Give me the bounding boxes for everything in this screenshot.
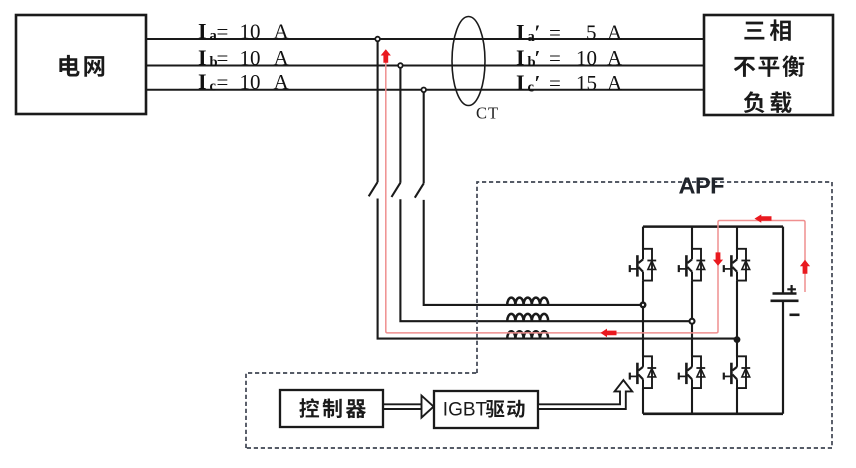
IGBT Q6 lower leg3 — [724, 356, 750, 388]
wire tap phase B + switch S2 — [392, 66, 693, 322]
wire phase B line — [146, 65, 704, 67]
node AC leg1 (phase C in) — [641, 303, 646, 308]
red arrow up (at tap A) — [381, 49, 391, 62]
svg-text:A: A — [607, 46, 623, 70]
svg-text:=: = — [549, 71, 561, 95]
node phase C tap — [421, 88, 426, 93]
wire red compensation current path — [386, 60, 805, 333]
node phase B tap — [398, 63, 403, 68]
svg-text:CT: CT — [476, 104, 499, 123]
svg-text:10: 10 — [576, 46, 597, 70]
svg-text:=: = — [217, 20, 229, 44]
svg-text:A: A — [607, 21, 623, 45]
svg-text:I: I — [198, 45, 207, 70]
red arrow down (leg3 branch) — [713, 252, 723, 265]
IGBT Q2 lower leg1 — [630, 356, 656, 388]
IGBT Q3 upper leg2 — [679, 249, 705, 281]
wire tap phase C + switch S3 — [415, 90, 643, 305]
red arrow up (at DC link) — [800, 260, 810, 274]
svg-text:I: I — [516, 45, 525, 70]
svg-text:I: I — [198, 69, 207, 94]
wire bridge leg 1 — [642, 227, 644, 250]
node AC leg2 (phase B in) — [690, 319, 695, 324]
wire tap phase A + switch S1 — [369, 39, 737, 339]
CT current transformer ellipse — [452, 17, 485, 106]
double-line arrow controller to driver — [383, 404, 422, 409]
svg-text:APF: APF — [679, 172, 725, 198]
red arrow left (top red wire) — [755, 214, 772, 222]
label - — [790, 313, 800, 316]
svg-text:=: = — [549, 46, 561, 70]
IGBT Q4 lower leg2 — [679, 356, 705, 388]
svg-text:′: ′ — [535, 21, 541, 45]
red arrow left (on inductor line) — [601, 329, 617, 338]
node AC leg3 (phase A in) — [734, 336, 741, 343]
svg-text:=: = — [217, 46, 229, 70]
wire DC link — [782, 227, 784, 414]
svg-text:c: c — [210, 79, 217, 95]
IGBT Q5 upper leg3 — [724, 249, 750, 281]
inductor Lb — [507, 314, 548, 321]
svg-text:10: 10 — [240, 70, 261, 94]
controller box 控制器 — [280, 390, 383, 427]
svg-text:′: ′ — [535, 46, 541, 70]
svg-text:A: A — [274, 20, 290, 44]
IGBT Q1 upper leg1 — [630, 249, 656, 281]
svg-text:′: ′ — [535, 71, 541, 95]
svg-text:15: 15 — [576, 71, 597, 95]
wire DC bottom bus — [643, 412, 783, 415]
load box 三相不平衡负载 — [704, 15, 833, 115]
IGBT driver box IGBT驱动 — [434, 391, 538, 428]
wire phase A line — [146, 38, 704, 40]
svg-text:I: I — [198, 19, 207, 44]
node phase A tap — [375, 37, 380, 42]
svg-text:A: A — [274, 46, 290, 70]
inductor Lc — [507, 298, 548, 305]
svg-text:I: I — [516, 70, 525, 95]
label + — [787, 285, 796, 294]
inductor La — [507, 331, 548, 338]
APF dashed box — [246, 182, 832, 448]
svg-text:10: 10 — [240, 46, 261, 70]
source box 电网 — [16, 15, 146, 114]
svg-text:IGBT: IGBT — [443, 400, 488, 421]
double-line arrow driver to IGBT gate — [538, 380, 632, 409]
svg-text:A: A — [607, 71, 623, 95]
svg-text:c: c — [528, 80, 535, 96]
svg-text:=: = — [217, 70, 229, 94]
wire bridge leg 3 — [736, 227, 738, 250]
wire DC top bus — [643, 225, 783, 228]
svg-text:I: I — [516, 20, 525, 45]
svg-text:5: 5 — [586, 21, 597, 45]
svg-text:=: = — [549, 21, 561, 45]
wire phase C line — [146, 89, 704, 91]
wire bridge leg 2 — [691, 227, 693, 250]
capacitor C (DC link) — [771, 294, 799, 301]
svg-text:A: A — [274, 70, 290, 94]
svg-text:10: 10 — [240, 20, 261, 44]
